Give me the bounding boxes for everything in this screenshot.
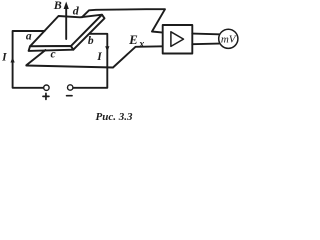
svg-text:b: b — [88, 35, 94, 47]
svg-text:x: x — [138, 39, 144, 50]
svg-text:d: d — [73, 3, 80, 17]
svg-text:a: a — [26, 31, 32, 43]
svg-text:mV: mV — [221, 34, 237, 46]
svg-text:I: I — [1, 52, 7, 64]
svg-text:c: c — [50, 49, 55, 61]
svg-text:Рис. 3.3: Рис. 3.3 — [96, 111, 133, 123]
svg-text:B: B — [53, 0, 62, 12]
svg-text:E: E — [128, 32, 138, 47]
svg-text:I: I — [96, 51, 102, 63]
